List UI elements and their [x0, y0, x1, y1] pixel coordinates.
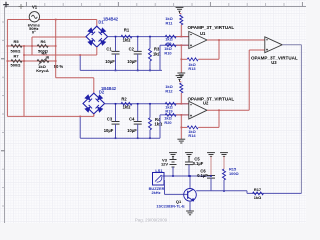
wire filter1 top rail: [108, 36, 189, 38]
svg-text:1kΩ: 1kΩ: [123, 38, 132, 43]
svg-text:R14: R14: [188, 133, 196, 138]
capacitor C6: [207, 175, 215, 177]
svg-text:R2: R2: [121, 96, 127, 101]
ground above V3: [169, 152, 177, 154]
resistor R5: [11, 45, 22, 48]
svg-text:R19: R19: [165, 108, 173, 113]
wire filter1 to row2: [159, 45, 161, 70]
svg-text:R5: R5: [13, 39, 19, 44]
wire R19 to U2: [176, 103, 189, 105]
svg-text:2kHz: 2kHz: [151, 190, 160, 195]
svg-text:1SC2383N-TL-E: 1SC2383N-TL-E: [156, 204, 185, 208]
svg-text:V1: V1: [32, 5, 38, 10]
svg-text:C1: C1: [106, 47, 112, 52]
ground above R11: [176, 6, 184, 8]
resistor R2: [121, 102, 132, 105]
capacitor C5: [185, 161, 193, 163]
wire mid return row: [24, 54, 97, 56]
wire left rail: [6, 20, 8, 117]
svg-text:OPAMP_3T_VIRTUAL: OPAMP_3T_VIRTUAL: [188, 25, 235, 30]
svg-text:D1: D1: [98, 20, 104, 25]
transistor Q1: [184, 189, 197, 202]
op-amp U3: [265, 37, 282, 53]
svg-text:100Ω: 100Ω: [229, 171, 239, 176]
svg-text:1kΩ: 1kΩ: [254, 195, 261, 200]
wire row2: [7, 60, 55, 62]
svg-text:R20: R20: [164, 120, 171, 125]
svg-text:R12: R12: [165, 89, 173, 94]
resistor R10: [165, 44, 176, 47]
svg-text:10µF: 10µF: [127, 128, 137, 133]
wire V1 left lead: [7, 19, 30, 21]
svg-text:C4: C4: [129, 117, 135, 122]
ground below R14: [177, 138, 185, 140]
svg-text:0.1µF: 0.1µF: [193, 161, 204, 166]
svg-text:R13: R13: [188, 66, 196, 71]
svg-text:R7: R7: [13, 54, 19, 59]
potentiometer R8: [37, 60, 49, 63]
resistor R17: [253, 192, 264, 195]
wire D2 bottom lead: [93, 114, 95, 117]
svg-text:C3: C3: [107, 117, 113, 122]
op-amp U2: [189, 101, 207, 119]
svg-text:U2: U2: [203, 100, 209, 105]
wire U1 output: [207, 39, 265, 41]
svg-text:1kΩ: 1kΩ: [123, 105, 132, 110]
svg-text:10µF: 10µF: [105, 59, 115, 64]
resistor R11: [180, 13, 182, 15]
wire supply row: [160, 175, 211, 177]
wire R13 left to ground: [181, 58, 187, 60]
resistor R20: [165, 113, 176, 116]
buzzer LS1: [153, 173, 165, 186]
diode bridge D2: [83, 93, 105, 114]
sheet border top: [5, 6, 307, 8]
svg-text:0.1µF: 0.1µF: [197, 173, 208, 178]
wire U2 output to U3: [207, 109, 249, 111]
ground above C5: [185, 152, 193, 154]
ground above C6: [207, 152, 215, 154]
wire bottom return to D2: [7, 115, 93, 117]
AC source V1: [29, 12, 39, 22]
ground above R12: [176, 75, 184, 77]
wire D1 bottom return: [96, 47, 98, 55]
op-amp U1: [189, 31, 207, 48]
ground below R13: [177, 72, 185, 74]
resistor R9: [165, 35, 176, 38]
resistor R12: [180, 81, 182, 83]
svg-text:R11: R11: [166, 20, 174, 25]
svg-text:0°: 0°: [32, 29, 36, 34]
capacitor C3: [115, 104, 117, 122]
svg-text:10µF: 10µF: [127, 59, 137, 64]
svg-text:C2: C2: [129, 47, 135, 52]
svg-text:1kΩ: 1kΩ: [155, 122, 164, 127]
svg-text:R10: R10: [164, 50, 171, 55]
resistor R15: [223, 169, 226, 180]
capacitor C2: [137, 37, 139, 52]
wire right rail: [55, 20, 57, 78]
svg-text:D2: D2: [99, 90, 105, 95]
wire Q1 emitter to ground: [189, 201, 191, 211]
wire R10 to U1: [176, 44, 189, 46]
svg-text:U3: U3: [271, 60, 277, 65]
wire row1: [7, 45, 55, 47]
svg-text:U1: U1: [200, 31, 206, 36]
wire output rail: [196, 190, 247, 192]
ground above R15: [220, 152, 228, 154]
resistor R3: [149, 37, 151, 49]
wire tap A: [23, 46, 25, 116]
wire buzzer to base: [163, 179, 166, 181]
svg-text:Pag. 29/09/2009: Pag. 29/09/2009: [135, 218, 168, 223]
wire filter2 top rail: [105, 103, 189, 105]
wire R9 to U1: [176, 36, 189, 38]
ground below Q1: [186, 210, 194, 212]
sheet border left: [4, 7, 6, 224]
resistor R1: [121, 35, 132, 38]
wire filter1 bottom rail: [80, 69, 162, 71]
diode bridge D1: [86, 26, 108, 47]
svg-text:1B4B42: 1B4B42: [103, 16, 119, 21]
wire U1 feedback: [218, 40, 220, 59]
resistor R7: [11, 60, 22, 63]
resistor R4: [149, 104, 151, 118]
capacitor C4: [137, 104, 139, 122]
svg-text:LS1: LS1: [155, 168, 163, 173]
battery V3: [170, 159, 177, 161]
wire tap B to D1 left: [31, 37, 33, 55]
svg-text:R6: R6: [40, 39, 46, 44]
wire R14 left to ground: [181, 126, 187, 128]
capacitor C1: [115, 37, 117, 52]
svg-text:12V: 12V: [161, 162, 168, 167]
svg-text:R1: R1: [124, 28, 130, 33]
wire filter2 bottom rail: [80, 137, 160, 139]
svg-text:10µF: 10µF: [104, 128, 114, 133]
resistor R14: [187, 126, 198, 129]
resistor R6: [37, 45, 48, 48]
wire V1 right lead to D1 top: [39, 19, 97, 21]
wire filter2 to row2: [159, 115, 161, 138]
wire R20 to U2: [176, 114, 189, 116]
wire U2 feedback: [218, 110, 220, 127]
svg-text:500Ω: 500Ω: [11, 63, 22, 68]
svg-text:R17: R17: [254, 187, 261, 192]
resistor R19: [165, 102, 176, 105]
wire Q1 collector to supply: [189, 176, 191, 189]
wire U3 output: [282, 44, 301, 46]
svg-text:500Ω: 500Ω: [11, 48, 22, 53]
svg-text:OPAMP_3T_VIRTUAL: OPAMP_3T_VIRTUAL: [188, 97, 235, 102]
resistor R13: [187, 58, 198, 61]
svg-text:Key=A: Key=A: [36, 68, 49, 73]
